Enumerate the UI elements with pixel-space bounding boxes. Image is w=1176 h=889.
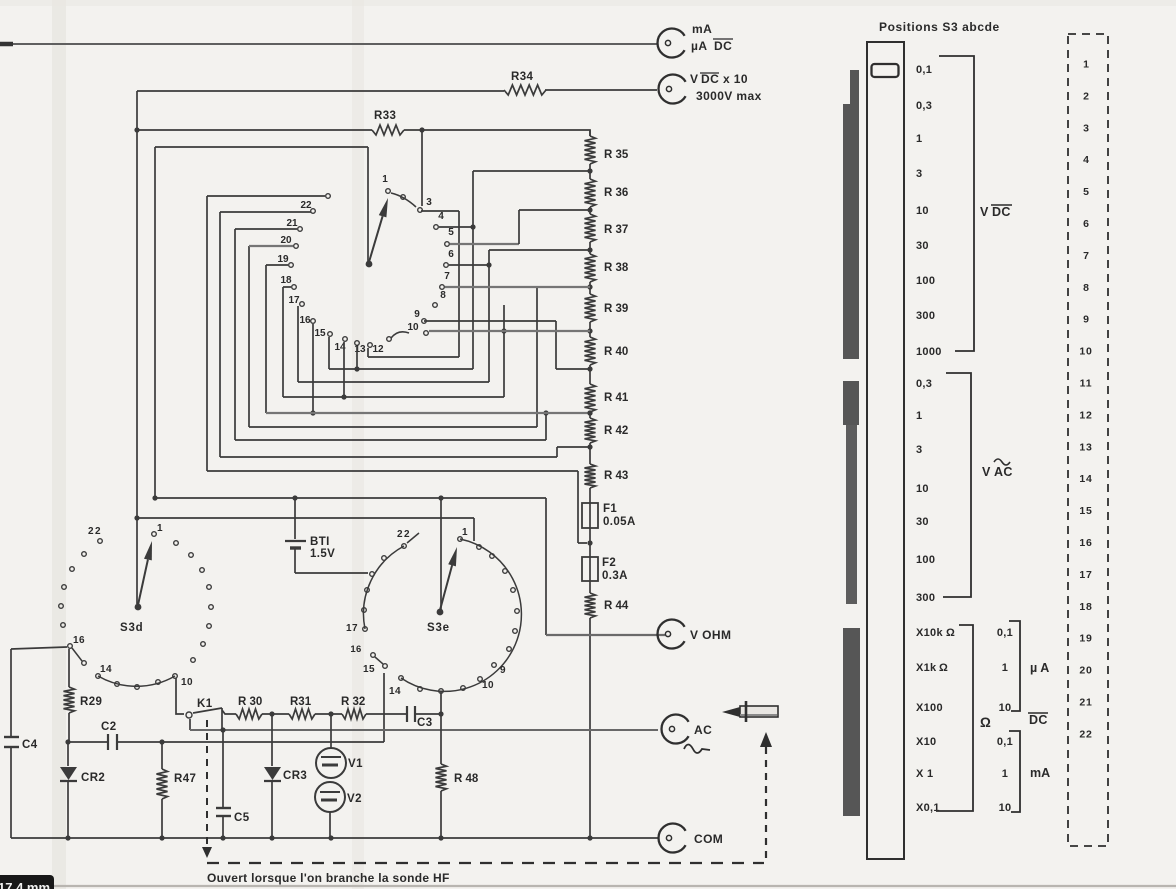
node S3d wiper center xyxy=(135,604,142,611)
svg-text:mA: mA xyxy=(1030,766,1050,780)
wire net S3-20 xyxy=(249,246,537,427)
junction chain/rail xyxy=(587,835,592,840)
wire COM rail xyxy=(11,837,659,839)
S3 contact 4 xyxy=(434,225,439,230)
svg-text:15: 15 xyxy=(314,328,326,339)
label R30 xyxy=(238,696,262,708)
svg-text:2: 2 xyxy=(1083,90,1089,102)
resistor R38 xyxy=(585,254,596,282)
label S3 contact 10 xyxy=(407,322,419,333)
resistor R48 xyxy=(436,714,447,838)
junction bus y498 left xyxy=(152,495,157,500)
svg-text:11: 11 xyxy=(1080,378,1093,390)
label V DC xyxy=(980,205,1012,219)
wire S3 contact 4 xyxy=(439,226,473,228)
svg-text:0,3: 0,3 xyxy=(916,378,932,390)
svg-text:5: 5 xyxy=(1083,186,1089,198)
wire S3 contact 6 xyxy=(449,264,489,266)
label R36 xyxy=(604,187,628,199)
junction V2/rail xyxy=(328,835,333,840)
wire K1 to R30 xyxy=(222,710,236,714)
wire net S3-17/6 xyxy=(298,250,590,382)
resistor R44 xyxy=(585,593,596,618)
label 3000V max xyxy=(696,89,762,103)
label S3d 22 xyxy=(88,526,102,537)
svg-text:7: 7 xyxy=(444,271,450,282)
wire S3e wiper feed xyxy=(440,498,442,610)
label R33 xyxy=(374,110,396,122)
svg-text:X1k: X1k xyxy=(916,662,937,674)
svg-text:K1: K1 xyxy=(197,698,213,710)
svg-text:18: 18 xyxy=(1079,601,1092,613)
bracket V DC xyxy=(939,56,974,351)
caption ouvert xyxy=(207,871,450,885)
svg-text:R29: R29 xyxy=(80,696,102,708)
label V AC xyxy=(982,459,1013,479)
svg-text:F1: F1 xyxy=(603,503,617,515)
label R47 xyxy=(174,773,196,785)
S3 contact 7 xyxy=(440,285,445,290)
junction V1 tap xyxy=(328,711,333,716)
dashed bottom line xyxy=(207,862,764,864)
dashed position box xyxy=(1068,34,1108,846)
labels mA values xyxy=(997,736,1013,814)
label R43 xyxy=(604,470,628,482)
label S3 contact 8 xyxy=(440,290,446,301)
svg-text:R 32: R 32 xyxy=(341,696,365,708)
battery BT1 1.5V xyxy=(285,541,306,548)
svg-text:10: 10 xyxy=(482,680,494,691)
terminal V DC x10 xyxy=(659,75,686,104)
label uA DC xyxy=(691,39,733,53)
svg-text:V: V xyxy=(690,72,698,86)
resistor R43 xyxy=(585,464,596,488)
svg-text:5: 5 xyxy=(448,227,454,238)
wire battery branch xyxy=(294,498,296,539)
wire contact3 riser xyxy=(421,130,423,206)
wire net S3-22c xyxy=(220,212,590,457)
svg-text:10: 10 xyxy=(999,802,1012,814)
svg-text:12: 12 xyxy=(372,344,384,355)
svg-text:X100: X100 xyxy=(916,702,943,714)
junction C5/rail xyxy=(220,835,225,840)
svg-text:µA: µA xyxy=(691,39,707,53)
wire net S3-15/4 xyxy=(329,171,590,372)
ring S3d bottom arc xyxy=(98,676,175,686)
S3 contact 22 xyxy=(311,209,316,214)
svg-text:22: 22 xyxy=(1079,728,1092,740)
svg-text:R 42: R 42 xyxy=(604,425,628,437)
fuse F2 xyxy=(582,557,598,581)
S3 contact 17 xyxy=(300,302,305,307)
label R35 xyxy=(604,149,629,161)
label positions xyxy=(879,20,1000,34)
svg-text:0,3: 0,3 xyxy=(916,100,932,112)
switch K1 xyxy=(186,708,222,730)
diode CR3 xyxy=(264,714,281,838)
svg-text:6: 6 xyxy=(448,249,454,260)
svg-text:15: 15 xyxy=(363,664,375,675)
wire V DC x10 feed xyxy=(137,90,657,91)
svg-text:mA: mA xyxy=(692,22,712,36)
svg-text:10: 10 xyxy=(181,677,193,688)
svg-text:14: 14 xyxy=(1079,473,1092,485)
svg-text:C5: C5 xyxy=(234,812,250,824)
svg-text:X10k: X10k xyxy=(916,627,943,639)
resistor R36 xyxy=(585,179,596,207)
svg-text:X0,1: X0,1 xyxy=(916,802,940,814)
wire S3 contact 7 xyxy=(445,286,590,288)
svg-text:V2: V2 xyxy=(347,793,362,805)
junction R47/rail xyxy=(159,835,164,840)
junction VDC riser/518 xyxy=(134,515,139,520)
wire V-OHM feed xyxy=(546,498,665,635)
label CR3 xyxy=(283,770,307,782)
svg-text:1000: 1000 xyxy=(916,346,942,358)
probe HF xyxy=(722,701,778,722)
svg-text:0,1: 0,1 xyxy=(997,736,1013,748)
svg-text:DC: DC xyxy=(1029,713,1048,727)
label S3e 16 xyxy=(350,644,361,655)
label V OHM xyxy=(690,628,731,642)
junction C5 tap xyxy=(220,727,225,732)
wire R33 to chain xyxy=(404,130,590,136)
svg-text:C3: C3 xyxy=(417,717,433,729)
label S3 contact 22 xyxy=(300,200,312,211)
svg-text:AC: AC xyxy=(994,465,1013,479)
svg-text:V: V xyxy=(982,465,991,479)
wire S3e-12 riser xyxy=(440,692,442,714)
capacitor C4 xyxy=(4,737,19,747)
label R41 xyxy=(604,392,629,404)
terminal V OHM xyxy=(658,619,685,648)
svg-text:X10: X10 xyxy=(916,736,936,748)
bracket V AC xyxy=(943,373,971,597)
rotary switch S3e contacts xyxy=(362,537,520,694)
junction CR3/rail xyxy=(269,835,274,840)
bottom scan line xyxy=(0,885,1176,887)
ring S3e right arc xyxy=(401,539,521,691)
resistor R39 xyxy=(585,294,596,322)
arrow S3 wiper xyxy=(369,198,388,262)
svg-text:Ouvert lorsque l'on branche la: Ouvert lorsque l'on branche la sonde HF xyxy=(207,871,450,885)
svg-text:16: 16 xyxy=(299,315,311,326)
svg-text:0.05A: 0.05A xyxy=(603,516,636,528)
ring S3e left arc xyxy=(363,546,404,629)
wire R32-C3 xyxy=(366,713,406,715)
svg-text:100: 100 xyxy=(916,275,935,287)
wire bus y518 xyxy=(137,518,474,541)
label C2 xyxy=(101,721,117,733)
labels ohm range values xyxy=(916,627,955,814)
junction CR3 tap xyxy=(269,711,274,716)
label S3e 1 xyxy=(462,527,468,538)
label ohm xyxy=(980,715,991,730)
arrow S3d wiper xyxy=(138,541,152,605)
svg-text:6: 6 xyxy=(1083,218,1089,230)
svg-text:C2: C2 xyxy=(101,721,117,733)
svg-text:1: 1 xyxy=(157,523,163,534)
label C3 xyxy=(417,717,433,729)
S3 contact 21 xyxy=(298,227,303,232)
svg-text:R 44: R 44 xyxy=(604,600,629,612)
S3 contact 3 xyxy=(418,208,423,213)
svg-text:17: 17 xyxy=(288,295,300,306)
resistor R40 xyxy=(585,337,596,365)
svg-text:21: 21 xyxy=(286,218,298,229)
junction R33/contact3 xyxy=(419,127,424,132)
capacitor C3 xyxy=(407,706,415,722)
label F1 xyxy=(603,503,636,528)
S3 contact 13 xyxy=(355,341,360,346)
svg-text:0,1: 0,1 xyxy=(997,627,1013,639)
svg-text:17: 17 xyxy=(346,623,358,634)
svg-text:9: 9 xyxy=(1083,314,1089,326)
S3 contact 22w xyxy=(326,194,331,199)
svg-text:1: 1 xyxy=(1002,662,1008,674)
svg-text:1.5V: 1.5V xyxy=(310,548,335,560)
svg-text:22: 22 xyxy=(397,529,411,540)
label S3 contact 3 xyxy=(426,197,432,208)
wire net S3-19 bus xyxy=(266,410,593,415)
svg-text:7: 7 xyxy=(1083,250,1089,262)
svg-text:CR3: CR3 xyxy=(283,770,307,782)
slider bar 2 xyxy=(843,381,859,604)
svg-text:13: 13 xyxy=(1079,441,1092,453)
junction R48 node xyxy=(438,711,443,716)
svg-text:CR2: CR2 xyxy=(81,772,105,784)
svg-text:4: 4 xyxy=(1083,154,1089,166)
junction F1/F2 xyxy=(587,540,592,545)
label S3 contact 14 xyxy=(334,342,346,353)
resistor R32 xyxy=(342,709,366,719)
label R44 xyxy=(604,600,629,612)
S3 contact 18 xyxy=(292,285,297,290)
label S3 contact 20 xyxy=(280,235,292,246)
svg-text:C4: C4 xyxy=(22,739,38,751)
label K1 xyxy=(197,698,213,710)
wire AC line xyxy=(190,729,658,731)
junction R48/rail xyxy=(438,835,443,840)
label S3e xyxy=(427,622,450,634)
label R40 xyxy=(604,346,628,358)
svg-text:3: 3 xyxy=(426,197,432,208)
svg-text:µ A: µ A xyxy=(1030,661,1049,675)
bracket uA xyxy=(1009,621,1020,711)
resistor R29 xyxy=(64,687,75,713)
bracket ohm xyxy=(936,625,973,811)
svg-text:X 1: X 1 xyxy=(916,768,933,780)
node S3e wiper center xyxy=(437,609,444,616)
label uA xyxy=(1030,661,1049,675)
svg-text:14: 14 xyxy=(389,686,401,697)
S3 contact 1 xyxy=(386,189,391,194)
svg-text:R 36: R 36 xyxy=(604,187,628,199)
svg-text:Positions S3 abcde: Positions S3 abcde xyxy=(879,20,1000,34)
label DC mid xyxy=(1028,713,1048,727)
wire R31-R32 xyxy=(315,713,342,715)
label R38 xyxy=(604,262,629,274)
svg-text:R 37: R 37 xyxy=(604,224,628,236)
svg-text:4: 4 xyxy=(438,211,444,222)
svg-text:F2: F2 xyxy=(602,557,616,569)
junction R47 top xyxy=(159,739,164,744)
svg-text:R47: R47 xyxy=(174,773,196,785)
wire S3e bridge 15-16 xyxy=(375,657,383,664)
svg-text:S3e: S3e xyxy=(427,622,450,634)
label S3 contact 1 xyxy=(382,174,388,185)
slider bar 3 xyxy=(843,628,860,816)
svg-text:20: 20 xyxy=(1079,665,1092,677)
svg-text:20: 20 xyxy=(280,235,292,246)
wire R29 top xyxy=(68,649,70,687)
label V2 xyxy=(347,793,362,805)
svg-text:1: 1 xyxy=(916,133,922,145)
rotary switch S3d contacts xyxy=(59,532,214,666)
S3 contact 20 xyxy=(294,244,299,249)
resistor R35 xyxy=(585,136,596,164)
junction battery tap xyxy=(292,495,297,500)
wire net S3-5 xyxy=(450,210,590,244)
wire net S3-19 xyxy=(266,265,316,416)
S3 contact 2 xyxy=(401,195,406,200)
wire C4 branch top xyxy=(11,647,67,649)
wire net S3-14 stem xyxy=(343,342,345,397)
labels position numbers 1-22 xyxy=(1079,59,1092,741)
label COM xyxy=(694,832,723,846)
svg-text:3: 3 xyxy=(1083,122,1089,134)
wire R29 bottom xyxy=(68,713,70,742)
S3 contact 16 xyxy=(311,319,316,324)
S3 contact 15 xyxy=(328,332,333,337)
label S3d 16 xyxy=(73,635,85,646)
wire net S3-16 stem xyxy=(312,324,314,413)
wire S3e-15 riser xyxy=(383,673,385,742)
label R32 xyxy=(341,696,365,708)
label S3e 9 xyxy=(500,665,506,676)
resistor R33 xyxy=(372,125,404,135)
label mA xyxy=(692,22,712,36)
lamp V1 xyxy=(316,714,346,778)
wire mA terminal feed xyxy=(0,43,657,45)
label S3 contact 5 xyxy=(448,227,454,238)
svg-text:9: 9 xyxy=(414,309,420,320)
label S3e 22 xyxy=(397,529,411,540)
svg-text:15: 15 xyxy=(1079,505,1092,517)
resistor R37 xyxy=(585,214,596,242)
svg-text:18: 18 xyxy=(280,275,292,286)
label S3 contact 9 xyxy=(414,309,420,320)
junction CR2/rail xyxy=(65,835,70,840)
S3 contact 19 xyxy=(289,263,294,268)
S3 contact 8 xyxy=(433,303,438,308)
label S3d xyxy=(120,622,144,634)
svg-text:Ω: Ω xyxy=(946,627,955,639)
label S3 contact 18 xyxy=(280,275,292,286)
label S3 contact 17 xyxy=(288,295,300,306)
junction S3e feed tap xyxy=(438,495,443,500)
terminal AC xyxy=(662,715,689,744)
svg-text:R 43: R 43 xyxy=(604,470,628,482)
bracket mA xyxy=(1009,731,1020,812)
svg-text:17.4 mm: 17.4 mm xyxy=(0,880,50,889)
label S3 contact 15 xyxy=(314,328,326,339)
arrow S3e wiper xyxy=(440,547,457,610)
junction VDC riser/R33 xyxy=(134,127,139,132)
label S3e 17 xyxy=(346,623,358,634)
svg-text:R 40: R 40 xyxy=(604,346,628,358)
label S3d 14 xyxy=(100,664,112,675)
terminal COM xyxy=(659,824,686,853)
wire net S3-21 xyxy=(235,229,549,440)
junction dots on chain xyxy=(587,168,592,449)
wire C4 branch xyxy=(10,649,12,838)
svg-text:10: 10 xyxy=(916,205,929,217)
wire S3 wiper bridge 1-2-3 xyxy=(391,193,416,207)
svg-text:R 35: R 35 xyxy=(604,149,629,161)
label R37 xyxy=(604,224,628,236)
node S3 wiper center xyxy=(366,261,373,268)
wire S3 wiper bridge 10 xyxy=(387,332,409,342)
svg-text:3: 3 xyxy=(916,444,922,456)
wire bus y498 xyxy=(155,497,546,499)
labels V DC range values xyxy=(916,64,942,358)
svg-text:R 30: R 30 xyxy=(238,696,262,708)
svg-text:R 39: R 39 xyxy=(604,303,628,315)
labels uA values xyxy=(997,627,1013,714)
svg-text:R31: R31 xyxy=(290,696,312,708)
svg-text:30: 30 xyxy=(916,240,929,252)
svg-text:R 48: R 48 xyxy=(454,773,479,785)
svg-text:COM: COM xyxy=(694,832,723,846)
svg-text:10: 10 xyxy=(407,322,419,333)
svg-text:100: 100 xyxy=(916,554,935,566)
svg-text:x 10: x 10 xyxy=(723,72,748,86)
svg-text:R33: R33 xyxy=(374,110,396,122)
wire resistor chain spine xyxy=(589,130,591,838)
wire S3 contact 20 xyxy=(249,245,293,247)
contacts S3d bottom xyxy=(96,674,178,690)
wire C3-node xyxy=(415,713,441,715)
label S3e 10 xyxy=(482,680,494,691)
label R34 xyxy=(511,71,534,83)
S3 contact 12 xyxy=(368,343,373,348)
wire C2 rail xyxy=(68,741,384,743)
svg-text:V1: V1 xyxy=(348,758,363,770)
label S3d 1 xyxy=(157,523,163,534)
label R31 xyxy=(290,696,312,708)
svg-text:Ω: Ω xyxy=(980,715,991,730)
label V1 xyxy=(348,758,363,770)
svg-text:R 38: R 38 xyxy=(604,262,629,274)
svg-text:22: 22 xyxy=(300,200,312,211)
junction R29/rail xyxy=(65,739,70,744)
fuse F1 xyxy=(582,503,598,528)
svg-text:Ω: Ω xyxy=(939,662,948,674)
svg-text:10: 10 xyxy=(1079,346,1092,358)
wire S3e bridge 22-1 xyxy=(407,533,419,543)
svg-text:1: 1 xyxy=(1002,768,1008,780)
dashed K1 arrow xyxy=(202,720,212,858)
wire net S3-22 xyxy=(207,196,587,543)
labels V AC range values xyxy=(916,378,935,604)
svg-text:14: 14 xyxy=(100,664,112,675)
label S3 contact 6 xyxy=(448,249,454,260)
lamp V2 xyxy=(315,782,345,838)
svg-text:10: 10 xyxy=(999,702,1012,714)
svg-text:1: 1 xyxy=(1083,59,1089,71)
label R42 xyxy=(604,425,628,437)
